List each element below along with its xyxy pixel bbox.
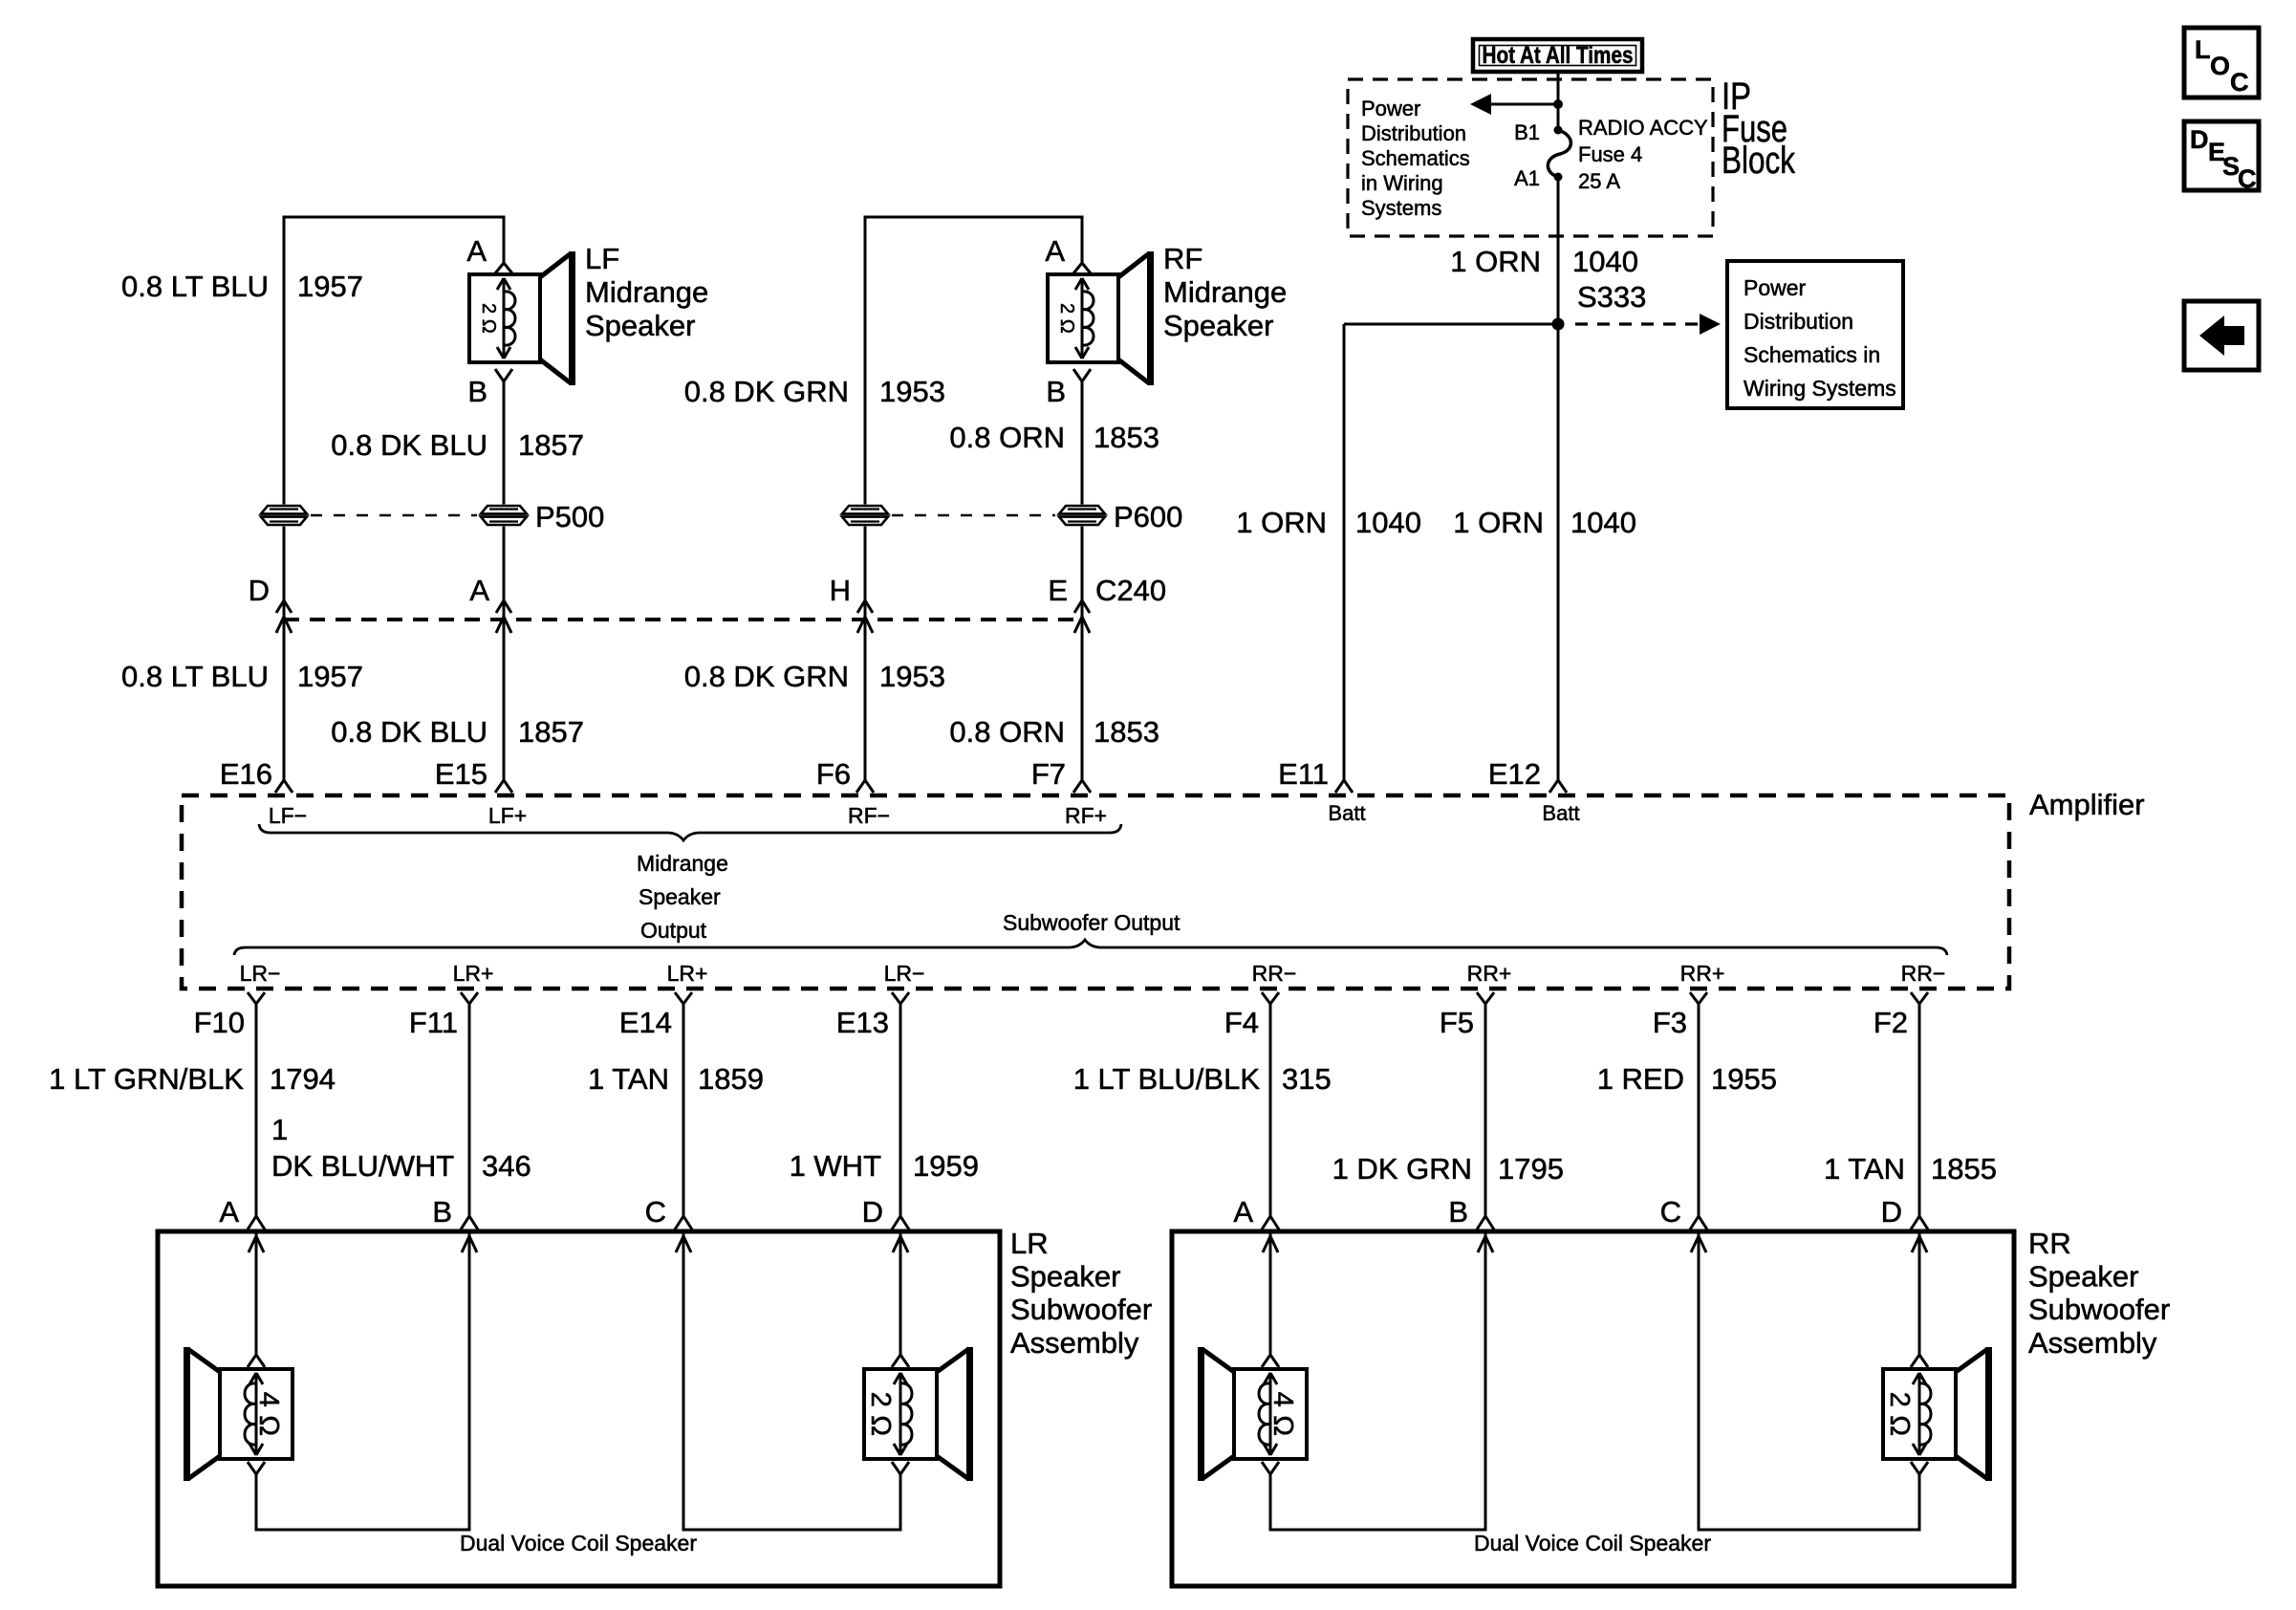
- wire F6 column (0.8 DK GRN 1953): [864, 216, 867, 781]
- svg-text:F3: F3: [1653, 1006, 1687, 1039]
- DESC reference box: [2184, 121, 2259, 190]
- svg-text:1 LT GRN/BLK: 1 LT GRN/BLK: [49, 1062, 244, 1096]
- svg-text:C: C: [645, 1195, 666, 1229]
- RF midrange speaker symbol 2 ohm: [1048, 274, 1118, 362]
- LF midrange speaker symbol 2 ohm: [469, 274, 540, 362]
- wire S333 down to E12: [1557, 324, 1560, 780]
- svg-text:1853: 1853: [1094, 715, 1159, 749]
- connector C240 pin E chevron above: [1074, 600, 1082, 613]
- dashed arrow from S333 to power distribution box: [1575, 322, 1707, 325]
- fork into subwoofer assembly (E13 wire): [892, 1216, 900, 1229]
- svg-text:Fuse 4: Fuse 4: [1578, 142, 1642, 166]
- svg-text:E11: E11: [1278, 757, 1329, 791]
- wire LF speaker B down to amplifier E15 (0.8 DK BLU 1857): [503, 381, 506, 780]
- wire entry arrow inside assembly: [893, 1236, 900, 1252]
- svg-text:4 Ω: 4 Ω: [1267, 1392, 1298, 1436]
- pin F11 fork below amplifier: [461, 992, 469, 1004]
- IP fuse block dashed box: [1348, 79, 1713, 236]
- wire A down to 4 ohm voice coil: [255, 1233, 258, 1355]
- voice coil 2 ohm (woofer facing right): [1883, 1369, 1956, 1459]
- wire entry arrow inside assembly: [1263, 1236, 1270, 1252]
- svg-text:0.8 ORN: 0.8 ORN: [949, 715, 1065, 749]
- svg-text:Schematics in: Schematics in: [1744, 342, 1880, 367]
- svg-text:P500: P500: [535, 500, 604, 533]
- svg-text:F4: F4: [1224, 1006, 1259, 1039]
- svg-text:D: D: [2190, 125, 2209, 154]
- svg-text:Midrange: Midrange: [1163, 275, 1287, 309]
- fork into subwoofer assembly (E14 wire): [675, 1216, 683, 1229]
- voice coil 2 ohm (woofer facing right): [864, 1369, 937, 1459]
- svg-text:0.8 DK GRN: 0.8 DK GRN: [684, 375, 849, 408]
- fork above 2 ohm coil: [1911, 1355, 1919, 1367]
- svg-text:Batt: Batt: [1328, 801, 1365, 825]
- fork into subwoofer assembly (F5 wire): [1477, 1216, 1485, 1229]
- svg-text:Distribution: Distribution: [1744, 309, 1853, 334]
- svg-text:A1: A1: [1514, 166, 1540, 190]
- connector C240 pin H arrow below: [857, 617, 865, 633]
- svg-text:F10: F10: [194, 1006, 245, 1039]
- fork into subwoofer assembly (F2 wire): [1911, 1216, 1919, 1229]
- svg-text:1: 1: [271, 1113, 288, 1146]
- svg-text:1 LT BLU/BLK: 1 LT BLU/BLK: [1073, 1062, 1261, 1096]
- svg-text:RR+: RR+: [1467, 961, 1512, 986]
- pin E11 fork into amplifier: [1335, 780, 1344, 793]
- svg-text:E: E: [1048, 574, 1068, 607]
- back arrow box: [2184, 301, 2259, 370]
- svg-text:Subwoofer: Subwoofer: [2028, 1293, 2170, 1326]
- svg-text:0.8 DK BLU: 0.8 DK BLU: [331, 715, 487, 749]
- svg-text:Subwoofer: Subwoofer: [1010, 1293, 1152, 1326]
- svg-text:RR−: RR−: [1901, 961, 1946, 986]
- svg-text:1959: 1959: [913, 1149, 979, 1183]
- svg-text:LR−: LR−: [884, 961, 925, 986]
- svg-text:LR+: LR+: [667, 961, 708, 986]
- svg-text:DK BLU/WHT: DK BLU/WHT: [271, 1149, 454, 1183]
- svg-text:2 Ω: 2 Ω: [865, 1392, 896, 1436]
- svg-text:F2: F2: [1874, 1006, 1908, 1039]
- LR Speaker Subwoofer Assembly box: [158, 1231, 1000, 1586]
- voice coil 4 ohm (woofer facing left): [1234, 1369, 1307, 1459]
- svg-text:Speaker: Speaker: [585, 309, 695, 342]
- svg-text:P600: P600: [1114, 500, 1182, 533]
- svg-text:1957: 1957: [297, 660, 363, 693]
- wire 2 ohm coil return loop to C: [683, 1233, 900, 1530]
- svg-text:1 ORN: 1 ORN: [1236, 506, 1327, 539]
- svg-text:Power: Power: [1361, 97, 1420, 120]
- svg-text:LR: LR: [1010, 1227, 1049, 1260]
- fork above 4 ohm coil: [248, 1355, 256, 1367]
- svg-text:Dual Voice Coil Speaker: Dual Voice Coil Speaker: [460, 1531, 697, 1556]
- pin E12 fork into amplifier: [1549, 780, 1558, 793]
- connector P600 half on F6 wire: [840, 505, 890, 527]
- wire top LF loop horizontal: [284, 216, 504, 219]
- svg-text:H: H: [830, 574, 851, 607]
- connector P600 dashed tie line: [892, 514, 1055, 517]
- svg-text:LF: LF: [585, 242, 619, 275]
- svg-text:D: D: [249, 574, 270, 607]
- svg-text:2 Ω: 2 Ω: [1056, 303, 1077, 334]
- svg-text:346: 346: [482, 1149, 531, 1183]
- wire top RF loop horizontal: [865, 216, 1082, 219]
- wire 2 ohm coil return loop to C: [1699, 1233, 1919, 1530]
- svg-text:Dual Voice Coil Speaker: Dual Voice Coil Speaker: [1474, 1531, 1711, 1556]
- wire entry arrow inside assembly: [1691, 1236, 1699, 1252]
- svg-text:Subwoofer Output: Subwoofer Output: [1003, 910, 1180, 935]
- connector C240 pin A chevron above: [496, 600, 504, 613]
- fuse element RADIO ACCY Fuse 4 (S-curve): [1548, 130, 1570, 177]
- svg-text:RF−: RF−: [848, 803, 890, 828]
- svg-text:C: C: [1660, 1195, 1681, 1229]
- connector P600 half on F7 wire: [1057, 505, 1107, 527]
- pin B fork below RF speaker: [1073, 369, 1082, 381]
- svg-text:in Wiring: in Wiring: [1361, 171, 1443, 195]
- connector C240 pin H chevron above: [857, 600, 865, 613]
- wire F2 down to subwoofer assembly: [1918, 1004, 1921, 1216]
- svg-text:LR+: LR+: [453, 961, 494, 986]
- svg-text:Output: Output: [640, 918, 707, 943]
- svg-text:E16: E16: [220, 757, 272, 791]
- wire entry arrow inside assembly: [1478, 1236, 1485, 1252]
- voice coil 4 ohm (woofer facing left): [220, 1369, 292, 1459]
- svg-text:Speaker: Speaker: [639, 884, 721, 909]
- connector P500 half on E15 wire: [479, 505, 529, 527]
- svg-text:0.8 LT BLU: 0.8 LT BLU: [121, 270, 269, 303]
- svg-text:Speaker: Speaker: [1163, 309, 1273, 342]
- svg-text:F6: F6: [816, 757, 851, 791]
- svg-text:RF+: RF+: [1065, 803, 1107, 828]
- svg-text:Assembly: Assembly: [1010, 1326, 1139, 1360]
- pin A1 terminal dot: [1554, 173, 1563, 182]
- svg-text:Amplifier: Amplifier: [2029, 788, 2145, 821]
- pin E16 fork into amplifier: [275, 780, 284, 793]
- wire 4 ohm coil return loop to B: [1270, 1233, 1485, 1530]
- svg-text:E14: E14: [619, 1006, 672, 1039]
- RR Speaker Subwoofer Assembly box: [1172, 1231, 2014, 1586]
- svg-text:Distribution: Distribution: [1361, 121, 1466, 145]
- svg-text:1 ORN: 1 ORN: [1453, 506, 1544, 539]
- svg-text:D: D: [862, 1195, 883, 1229]
- fork below 4 ohm coil: [248, 1462, 256, 1474]
- wire A down to 4 ohm voice coil: [1269, 1233, 1272, 1355]
- svg-text:A: A: [219, 1195, 239, 1229]
- fork above 2 ohm coil: [892, 1355, 900, 1367]
- connector C240 pin D chevron above: [276, 600, 284, 613]
- svg-text:1040: 1040: [1572, 245, 1638, 278]
- svg-text:C: C: [2230, 68, 2249, 97]
- svg-text:Power: Power: [1744, 275, 1807, 300]
- svg-text:Hot At All Times: Hot At All Times: [1483, 42, 1634, 69]
- svg-text:0.8 LT BLU: 0.8 LT BLU: [121, 660, 269, 693]
- Power Distribution Schematics in Wiring Systems box (right): [1727, 261, 1903, 408]
- wire F3 down to subwoofer assembly: [1698, 1004, 1700, 1216]
- pin F2 fork below amplifier: [1911, 992, 1919, 1004]
- pin F7 fork into amplifier: [1073, 780, 1082, 793]
- svg-text:E12: E12: [1488, 757, 1541, 791]
- svg-text:1957: 1957: [297, 270, 363, 303]
- fork into subwoofer assembly (F4 wire): [1262, 1216, 1270, 1229]
- pin F6 fork into amplifier: [856, 780, 865, 793]
- svg-text:E13: E13: [836, 1006, 889, 1039]
- svg-text:1955: 1955: [1711, 1062, 1777, 1096]
- svg-text:Speaker: Speaker: [2028, 1260, 2138, 1294]
- svg-text:A: A: [1233, 1195, 1253, 1229]
- svg-text:RR−: RR−: [1252, 961, 1297, 986]
- wire D down to 2 ohm voice coil: [899, 1233, 902, 1355]
- svg-text:C: C: [2238, 164, 2257, 193]
- wire entry arrow inside assembly: [462, 1236, 469, 1252]
- pin E15 fork into amplifier: [495, 780, 504, 793]
- LOC reference box: [2184, 28, 2259, 98]
- connector C240 dashed line: [284, 618, 1082, 621]
- svg-text:25 A: 25 A: [1578, 169, 1620, 193]
- wire E16 column (0.8 LT BLU 1957): [283, 216, 286, 781]
- svg-text:A: A: [469, 574, 489, 607]
- svg-text:B: B: [432, 1195, 452, 1229]
- svg-text:Batt: Batt: [1542, 801, 1579, 825]
- svg-text:C240: C240: [1095, 574, 1166, 607]
- wire RF speaker B down to amplifier F7 (0.8 ORN 1853): [1081, 381, 1084, 780]
- svg-text:2 Ω: 2 Ω: [478, 303, 499, 334]
- svg-text:L: L: [2195, 35, 2211, 64]
- svg-text:1 TAN: 1 TAN: [1824, 1152, 1905, 1186]
- svg-text:Wiring Systems: Wiring Systems: [1744, 376, 1896, 401]
- wire entry arrow inside assembly: [676, 1236, 683, 1252]
- svg-text:1 RED: 1 RED: [1597, 1062, 1684, 1096]
- fork above 4 ohm coil: [1262, 1355, 1270, 1367]
- pin F4 fork below amplifier: [1262, 992, 1270, 1004]
- connector P500 half on E16 wire: [259, 505, 309, 527]
- svg-text:O: O: [2210, 52, 2230, 80]
- svg-text:1040: 1040: [1355, 506, 1421, 539]
- svg-text:1857: 1857: [518, 428, 584, 462]
- connector P500 dashed tie line: [311, 514, 477, 517]
- svg-text:F7: F7: [1031, 757, 1066, 791]
- svg-text:B: B: [1046, 375, 1066, 408]
- wire fuse A1 down to splice S333: [1557, 177, 1560, 324]
- svg-text:LF+: LF+: [488, 803, 527, 828]
- svg-text:1 ORN: 1 ORN: [1450, 245, 1541, 278]
- pin F10 fork below amplifier: [248, 992, 256, 1004]
- svg-text:B1: B1: [1514, 120, 1540, 144]
- wire D down to 2 ohm voice coil: [1918, 1233, 1921, 1355]
- pin A fork at LF speaker: [495, 263, 504, 273]
- svg-text:2 Ω: 2 Ω: [1884, 1392, 1915, 1436]
- svg-text:A: A: [466, 234, 487, 268]
- svg-text:Midrange: Midrange: [637, 851, 728, 876]
- pin B1 terminal dot: [1554, 126, 1563, 135]
- svg-text:1795: 1795: [1498, 1152, 1564, 1186]
- svg-text:Systems: Systems: [1361, 196, 1441, 220]
- pin A fork at RF speaker: [1073, 263, 1082, 273]
- connector C240 pin E arrow below: [1074, 617, 1082, 633]
- svg-text:D: D: [1881, 1195, 1902, 1229]
- svg-text:Schematics: Schematics: [1361, 146, 1470, 170]
- svg-text:RF: RF: [1163, 242, 1202, 275]
- fork below 4 ohm coil: [1262, 1462, 1270, 1474]
- svg-text:1953: 1953: [879, 375, 945, 408]
- wire 4 ohm coil return loop to B: [256, 1233, 469, 1530]
- svg-text:1 TAN: 1 TAN: [588, 1062, 669, 1096]
- svg-text:Midrange: Midrange: [585, 275, 708, 309]
- svg-text:RR+: RR+: [1680, 961, 1725, 986]
- svg-text:1794: 1794: [270, 1062, 336, 1096]
- svg-text:1 DK GRN: 1 DK GRN: [1332, 1152, 1472, 1186]
- svg-text:B: B: [467, 375, 487, 408]
- amplifier dashed outline: [182, 795, 2009, 989]
- svg-text:0.8 ORN: 0.8 ORN: [949, 421, 1065, 454]
- wire LF speaker feed (A): [503, 216, 506, 264]
- pin E13 fork below amplifier: [892, 992, 900, 1004]
- svg-text:A: A: [1045, 234, 1065, 268]
- svg-text:1040: 1040: [1570, 506, 1636, 539]
- connector C240 pin A arrow below: [496, 617, 504, 633]
- wire entry arrow inside assembly: [249, 1236, 256, 1252]
- wire S333 left branch to E11: [1344, 323, 1558, 326]
- svg-text:1953: 1953: [879, 660, 945, 693]
- svg-text:RADIO ACCY: RADIO ACCY: [1578, 116, 1708, 140]
- brace subwoofer output: [234, 940, 1947, 955]
- pin F3 fork below amplifier: [1690, 992, 1699, 1004]
- svg-text:1857: 1857: [518, 715, 584, 749]
- fork below 2 ohm coil: [1911, 1462, 1919, 1474]
- svg-text:0.8 DK BLU: 0.8 DK BLU: [331, 428, 487, 462]
- svg-text:1855: 1855: [1931, 1152, 1997, 1186]
- svg-text:F11: F11: [409, 1006, 458, 1039]
- back arrow icon: [2199, 315, 2244, 356]
- svg-text:F5: F5: [1440, 1006, 1474, 1039]
- pin F5 fork below amplifier: [1477, 992, 1485, 1004]
- svg-text:1859: 1859: [698, 1062, 764, 1096]
- wire F5 down to subwoofer assembly: [1484, 1004, 1487, 1216]
- connector C240 pin D arrow below: [276, 617, 284, 633]
- brace midrange speaker output: [259, 824, 1121, 840]
- svg-text:4 Ω: 4 Ω: [253, 1392, 284, 1436]
- wire RF speaker feed (A): [1081, 216, 1084, 264]
- wire entry arrow inside assembly: [1912, 1236, 1919, 1252]
- svg-text:LR−: LR−: [240, 961, 281, 986]
- svg-text:Speaker: Speaker: [1010, 1260, 1120, 1294]
- svg-text:1 WHT: 1 WHT: [790, 1149, 882, 1183]
- wire arrow to power distribution schematics (left): [1489, 103, 1558, 106]
- pin B fork below LF speaker: [495, 369, 504, 381]
- wire from Hot At All Times down to fuse B1: [1557, 72, 1560, 130]
- wire E14 down to subwoofer assembly: [682, 1004, 685, 1216]
- fork into subwoofer assembly (F11 wire): [461, 1216, 469, 1229]
- Hot At All Times box: [1473, 39, 1642, 72]
- svg-text:S333: S333: [1577, 280, 1646, 314]
- svg-text:1853: 1853: [1094, 421, 1159, 454]
- svg-text:RR: RR: [2028, 1227, 2071, 1260]
- wire F4 down to subwoofer assembly: [1269, 1004, 1272, 1216]
- svg-text:0.8 DK GRN: 0.8 DK GRN: [684, 660, 849, 693]
- junction dot at arrow branch: [1553, 99, 1563, 109]
- svg-text:B: B: [1448, 1195, 1468, 1229]
- wire F10 down to subwoofer assembly: [255, 1004, 258, 1216]
- svg-text:LF−: LF−: [269, 803, 307, 828]
- svg-text:Block: Block: [1722, 140, 1796, 182]
- pin E14 fork below amplifier: [675, 992, 683, 1004]
- fork into subwoofer assembly (F3 wire): [1690, 1216, 1699, 1229]
- svg-text:E15: E15: [435, 757, 487, 791]
- fork below 2 ohm coil: [892, 1462, 900, 1474]
- wire E13 down to subwoofer assembly: [899, 1004, 902, 1216]
- fork into subwoofer assembly (F10 wire): [248, 1216, 256, 1229]
- splice S333 junction dot: [1552, 318, 1565, 331]
- svg-text:315: 315: [1282, 1062, 1332, 1096]
- svg-text:Assembly: Assembly: [2028, 1326, 2157, 1360]
- wire F11 down to subwoofer assembly: [468, 1004, 471, 1216]
